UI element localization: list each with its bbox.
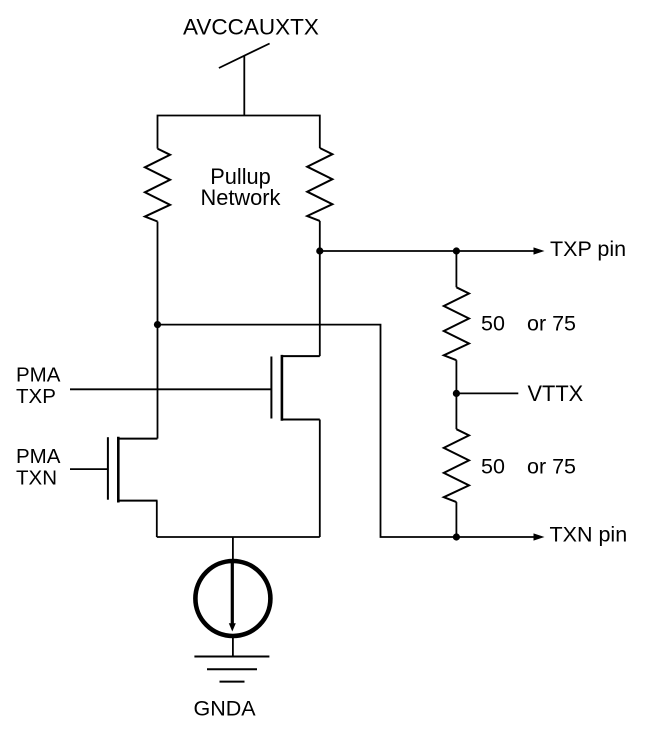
svg-text:TXN pin: TXN pin <box>550 523 628 547</box>
svg-text:TXP pin: TXP pin <box>550 237 626 261</box>
svg-text:50: 50 <box>481 455 505 479</box>
svg-text:TXP: TXP <box>16 385 56 408</box>
svg-text:PMA: PMA <box>16 445 61 468</box>
svg-text:PMA: PMA <box>16 364 61 387</box>
svg-text:Network: Network <box>201 185 281 210</box>
svg-text:50: 50 <box>481 312 505 336</box>
svg-text:AVCCAUXTX: AVCCAUXTX <box>183 15 319 40</box>
svg-text:or 75: or 75 <box>527 312 576 336</box>
svg-text:TXN: TXN <box>16 467 57 490</box>
svg-text:or 75: or 75 <box>527 455 576 479</box>
svg-text:VTTX: VTTX <box>528 381 584 406</box>
svg-text:GNDA: GNDA <box>194 697 257 721</box>
